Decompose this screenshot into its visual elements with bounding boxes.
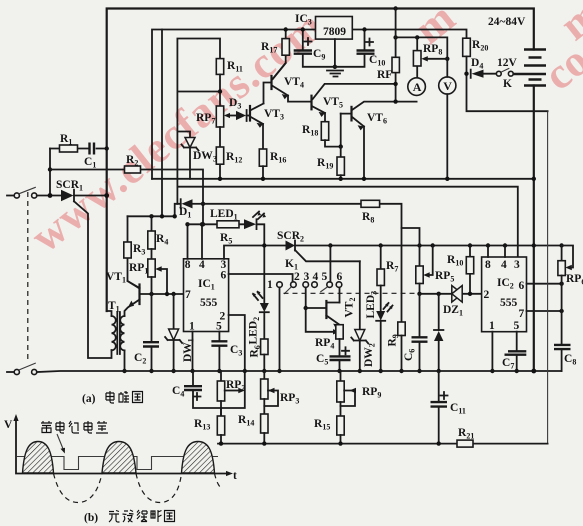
- SCR1: [61, 190, 74, 202]
- svg-text:DW1: DW1: [182, 338, 196, 362]
- transistor VT6: [350, 107, 352, 121]
- switch S top: [14, 193, 19, 198]
- capacitor C7 on pin5: [516, 332, 518, 371]
- wire: pin2 to RP2 node: [221, 315, 245, 416]
- wire: pins 8,4 risers: [188, 224, 203, 258]
- svg-text:4: 4: [501, 259, 507, 271]
- resistor R20: [463, 38, 471, 56]
- switch S bottom: [14, 369, 19, 374]
- resistor RF on x=395.6: [395, 9, 397, 102]
- svg-text:R7: R7: [386, 260, 398, 274]
- zener DW2: [359, 261, 361, 371]
- potentiometer RP5: [419, 246, 421, 267]
- svg-text:R15: R15: [314, 418, 330, 432]
- capacitor C11: [438, 371, 440, 444]
- svg-text:RP4: RP4: [315, 337, 334, 351]
- svg-text:4: 4: [313, 271, 319, 283]
- svg-text:R20: R20: [472, 39, 488, 53]
- svg-text:R4: R4: [156, 233, 168, 247]
- svg-text:R14: R14: [238, 414, 254, 428]
- svg-text:R6: R6: [249, 345, 263, 357]
- resistor R9: [398, 322, 405, 336]
- capacitor C4: [193, 371, 221, 408]
- resistor R1 / capacitor C1 parallel: [50, 148, 107, 150]
- svg-text:4: 4: [199, 259, 205, 271]
- potentiometer RP8: [416, 37, 418, 77]
- svg-text:R8: R8: [362, 211, 374, 225]
- wire C left: base rail y=38.5 down to D1/IC2pin3 rail: [177, 39, 220, 204]
- AC terminal top: [7, 195, 14, 197]
- svg-text:VT1: VT1: [106, 271, 126, 285]
- svg-text:C3: C3: [230, 344, 242, 358]
- potentiometer RP6: [561, 246, 563, 261]
- svg-text:R3: R3: [133, 243, 145, 257]
- wire: R21 rail from D4 node: [547, 111, 549, 443]
- svg-text:R1: R1: [60, 133, 72, 147]
- svg-text:C7: C7: [502, 357, 514, 371]
- svg-text:7: 7: [185, 289, 191, 301]
- wire: R11 bottom to RP7 top with tap to x=177 rail: [219, 74, 221, 106]
- V axis: [16, 420, 227, 474]
- svg-text:R18: R18: [302, 124, 318, 138]
- watermark www.elecfans.com diagonal: [22, 0, 583, 262]
- svg-text:RP5: RP5: [435, 270, 454, 284]
- svg-text:R10: R10: [447, 254, 463, 268]
- svg-text:D4: D4: [471, 57, 483, 71]
- wire: IC2 pin6, pin7 to RP6/C8 column: [527, 284, 562, 311]
- label battery voltage (xu dian chi dian ya) + arrow: [41, 421, 108, 433]
- svg-text:R12: R12: [226, 151, 242, 165]
- switch K (12V tap): [496, 71, 501, 76]
- LED3: [376, 311, 385, 321]
- resistor R11: [216, 59, 223, 75]
- svg-text:A: A: [413, 80, 422, 94]
- transistor VT1: [138, 285, 140, 305]
- capacitor C10: [335, 30, 365, 67]
- wire: top bus y=8.5 from x=107 to battery: [107, 9, 534, 312]
- wire: IC2 pin1 riser: [491, 332, 493, 371]
- svg-text:R9: R9: [387, 334, 401, 346]
- svg-text:R5: R5: [220, 232, 232, 246]
- resistor R2: [50, 170, 203, 225]
- transistor VT3: [249, 106, 251, 121]
- wire: 7809 output rail to R20: [352, 30, 466, 39]
- svg-text:RF: RF: [377, 69, 392, 81]
- svg-text:5: 5: [322, 271, 328, 283]
- wire: pin7 rail y=294: [140, 293, 184, 295]
- diode D3: [247, 115, 249, 117]
- zener DZ1 (bidirectional): [452, 286, 462, 303]
- svg-text:2: 2: [484, 289, 490, 301]
- svg-text:C2: C2: [134, 352, 146, 366]
- SCR2: [262, 243, 266, 247]
- svg-text:VT4: VT4: [284, 76, 304, 90]
- svg-text:LED2: LED2: [248, 317, 262, 345]
- wire B: 7809 input rail y=29.5: [152, 30, 316, 179]
- svg-text:6: 6: [519, 280, 525, 292]
- zener DW3: [177, 132, 190, 179]
- capacitor C2: [151, 277, 153, 371]
- LED2 + R6 chain: [260, 303, 269, 312]
- svg-text:5: 5: [514, 320, 520, 332]
- wire: main ground bus y=371: [37, 371, 562, 372]
- wire: R8 branch to RP5: [402, 228, 420, 246]
- resistor R8 rail: [203, 204, 402, 322]
- svg-text:LED1: LED1: [210, 208, 238, 222]
- resistor R7 + LED3 chain: [380, 246, 382, 270]
- diode D1: [201, 202, 205, 206]
- battery 24~84V: [524, 50, 546, 86]
- svg-text:555: 555: [200, 297, 218, 309]
- svg-text:SCR1: SCR1: [56, 179, 83, 193]
- IC2 555: [482, 257, 527, 332]
- zener DW1: [173, 294, 175, 371]
- svg-text:C8: C8: [564, 353, 576, 367]
- svg-text:R16: R16: [270, 151, 286, 165]
- diode D4: [471, 70, 497, 78]
- svg-text:co: co: [535, 36, 583, 100]
- resistor R19: [340, 147, 342, 157]
- svg-text:C11: C11: [450, 402, 466, 416]
- svg-text:C4: C4: [172, 385, 184, 399]
- capacitor C9: [303, 30, 335, 67]
- potentiometer RP3 + resistor R14: [263, 371, 265, 379]
- wire: R1C1 left leg down to R2 wire and SCR1 wire: [49, 149, 51, 196]
- svg-text:1: 1: [267, 279, 273, 291]
- wire C right: y=37.4 RF to RP8: [396, 37, 448, 58]
- resistor R17: [273, 30, 286, 80]
- wire: DZ1 rail y=293.8: [420, 293, 482, 295]
- svg-text:RP1: RP1: [129, 262, 148, 276]
- dashed discharge sine: [54, 474, 222, 503]
- IC3 7809 regulator: [316, 17, 353, 40]
- ground of 7809: [334, 39, 336, 67]
- voltmeter V: [439, 77, 456, 94]
- wire: R3/R4 top rail y=216.3: [128, 215, 175, 217]
- resistor R21: [457, 440, 473, 447]
- svg-text:RP9: RP9: [362, 386, 381, 400]
- resistor R10: [469, 246, 471, 294]
- dashed gang link of switch: [27, 192, 29, 362]
- svg-text:3: 3: [514, 259, 520, 271]
- svg-text:V: V: [443, 79, 452, 93]
- potentiometer RP9 + resistor R15: [340, 371, 342, 381]
- svg-text:(a): (a): [82, 393, 96, 405]
- wire: contact1 down to ground bus: [279, 287, 281, 371]
- svg-text:RP3: RP3: [280, 392, 299, 406]
- resistor R3: [128, 216, 140, 288]
- svg-text:R19: R19: [317, 157, 333, 171]
- wire: SCR2 output rail y=245.5 to right: [295, 245, 562, 247]
- wire: pin1 riser: [192, 332, 194, 372]
- svg-text:2: 2: [294, 271, 300, 283]
- wire: contact3 to VT2 base and RP4 wiper: [306, 287, 336, 331]
- svg-text:DW3: DW3: [193, 150, 217, 164]
- wire: bottom rail y=443.6 with R21: [218, 443, 548, 445]
- potentiometer RP1: [151, 249, 153, 259]
- svg-text:6: 6: [337, 271, 343, 283]
- resistor R12: [219, 127, 221, 179]
- capacitor C5: [339, 339, 341, 371]
- svg-text:DZ1: DZ1: [443, 304, 463, 318]
- svg-text:C9: C9: [313, 48, 325, 62]
- svg-text:8: 8: [485, 259, 491, 271]
- svg-text:RP2: RP2: [226, 379, 245, 393]
- wire: pin6 to contact 2: [229, 274, 293, 282]
- wire: pin3 riser to SCR2 rail: [224, 246, 286, 259]
- wire: R5/LED1 rail y=224.3: [188, 224, 265, 303]
- svg-text:R13: R13: [194, 418, 210, 432]
- svg-text:VT3: VT3: [264, 108, 284, 122]
- svg-text:C6: C6: [403, 349, 417, 361]
- svg-text:RP6: RP6: [566, 273, 583, 287]
- svg-text:R21: R21: [458, 427, 474, 441]
- wire: contact5 riser from SCR2 rail: [329, 246, 331, 282]
- svg-text:V: V: [4, 419, 13, 431]
- LED1: [244, 219, 256, 229]
- svg-text:8: 8: [185, 259, 191, 271]
- transistor VT2: [306, 307, 326, 309]
- wire: emitter/ground bus y=178.8: [152, 178, 534, 180]
- wire: IC2 pin3 long rail y=186.7: [177, 187, 517, 257]
- svg-text:D1: D1: [179, 206, 191, 220]
- svg-text:3: 3: [304, 271, 310, 283]
- svg-text:VT2: VT2: [344, 298, 358, 318]
- clipped battery-voltage line with notches: [17, 457, 218, 470]
- potentiometer RP4: [336, 325, 343, 339]
- capacitor C8: [561, 276, 563, 372]
- transistor VT5: [310, 96, 312, 110]
- svg-text:K: K: [503, 78, 512, 90]
- svg-text:DW2: DW2: [363, 343, 377, 367]
- svg-text:LED3: LED3: [365, 291, 379, 319]
- potentiometer RP7: [216, 106, 223, 127]
- resistor R4: [151, 216, 153, 231]
- svg-text:K1: K1: [285, 258, 298, 272]
- svg-text:SCR2: SCR2: [277, 230, 304, 244]
- wire: IC2 pins 8,4 risers: [488, 246, 505, 258]
- svg-text:12V: 12V: [497, 57, 518, 69]
- diode (to C11 node): [437, 292, 441, 296]
- svg-text:C5: C5: [316, 353, 328, 367]
- ammeter A: [408, 78, 426, 96]
- AC terminal bottom: [7, 371, 14, 373]
- svg-text:C1: C1: [84, 156, 96, 170]
- svg-text:6: 6: [221, 270, 227, 282]
- svg-text:7809: 7809: [323, 26, 346, 38]
- svg-text:24~84V: 24~84V: [488, 16, 526, 28]
- svg-text:(b): (b): [84, 512, 98, 524]
- potentiometer RP2 + resistor R13: [220, 371, 222, 381]
- resistor R16: [259, 149, 266, 166]
- wire: left inner vertical x=162 down to R3/R4 node: [161, 30, 163, 217]
- svg-text:7: 7: [519, 308, 525, 320]
- svg-text:t: t: [233, 470, 237, 482]
- capacitor C3 on pin5: [218, 332, 220, 372]
- svg-text:VT6: VT6: [367, 112, 387, 126]
- resistor R18: [321, 122, 328, 141]
- svg-text:555: 555: [500, 297, 518, 309]
- svg-text:C10: C10: [369, 54, 385, 68]
- resistor R5: [217, 221, 239, 228]
- IC1 555: [184, 259, 229, 332]
- capacitor C6: [419, 294, 421, 371]
- node: x395 top bus junction: [393, 6, 397, 10]
- svg-text:T1: T1: [108, 300, 120, 314]
- transformer T1: [107, 311, 112, 316]
- svg-text:VT5: VT5: [323, 96, 343, 110]
- svg-text:1: 1: [489, 320, 495, 332]
- transistor VT4: [270, 76, 272, 89]
